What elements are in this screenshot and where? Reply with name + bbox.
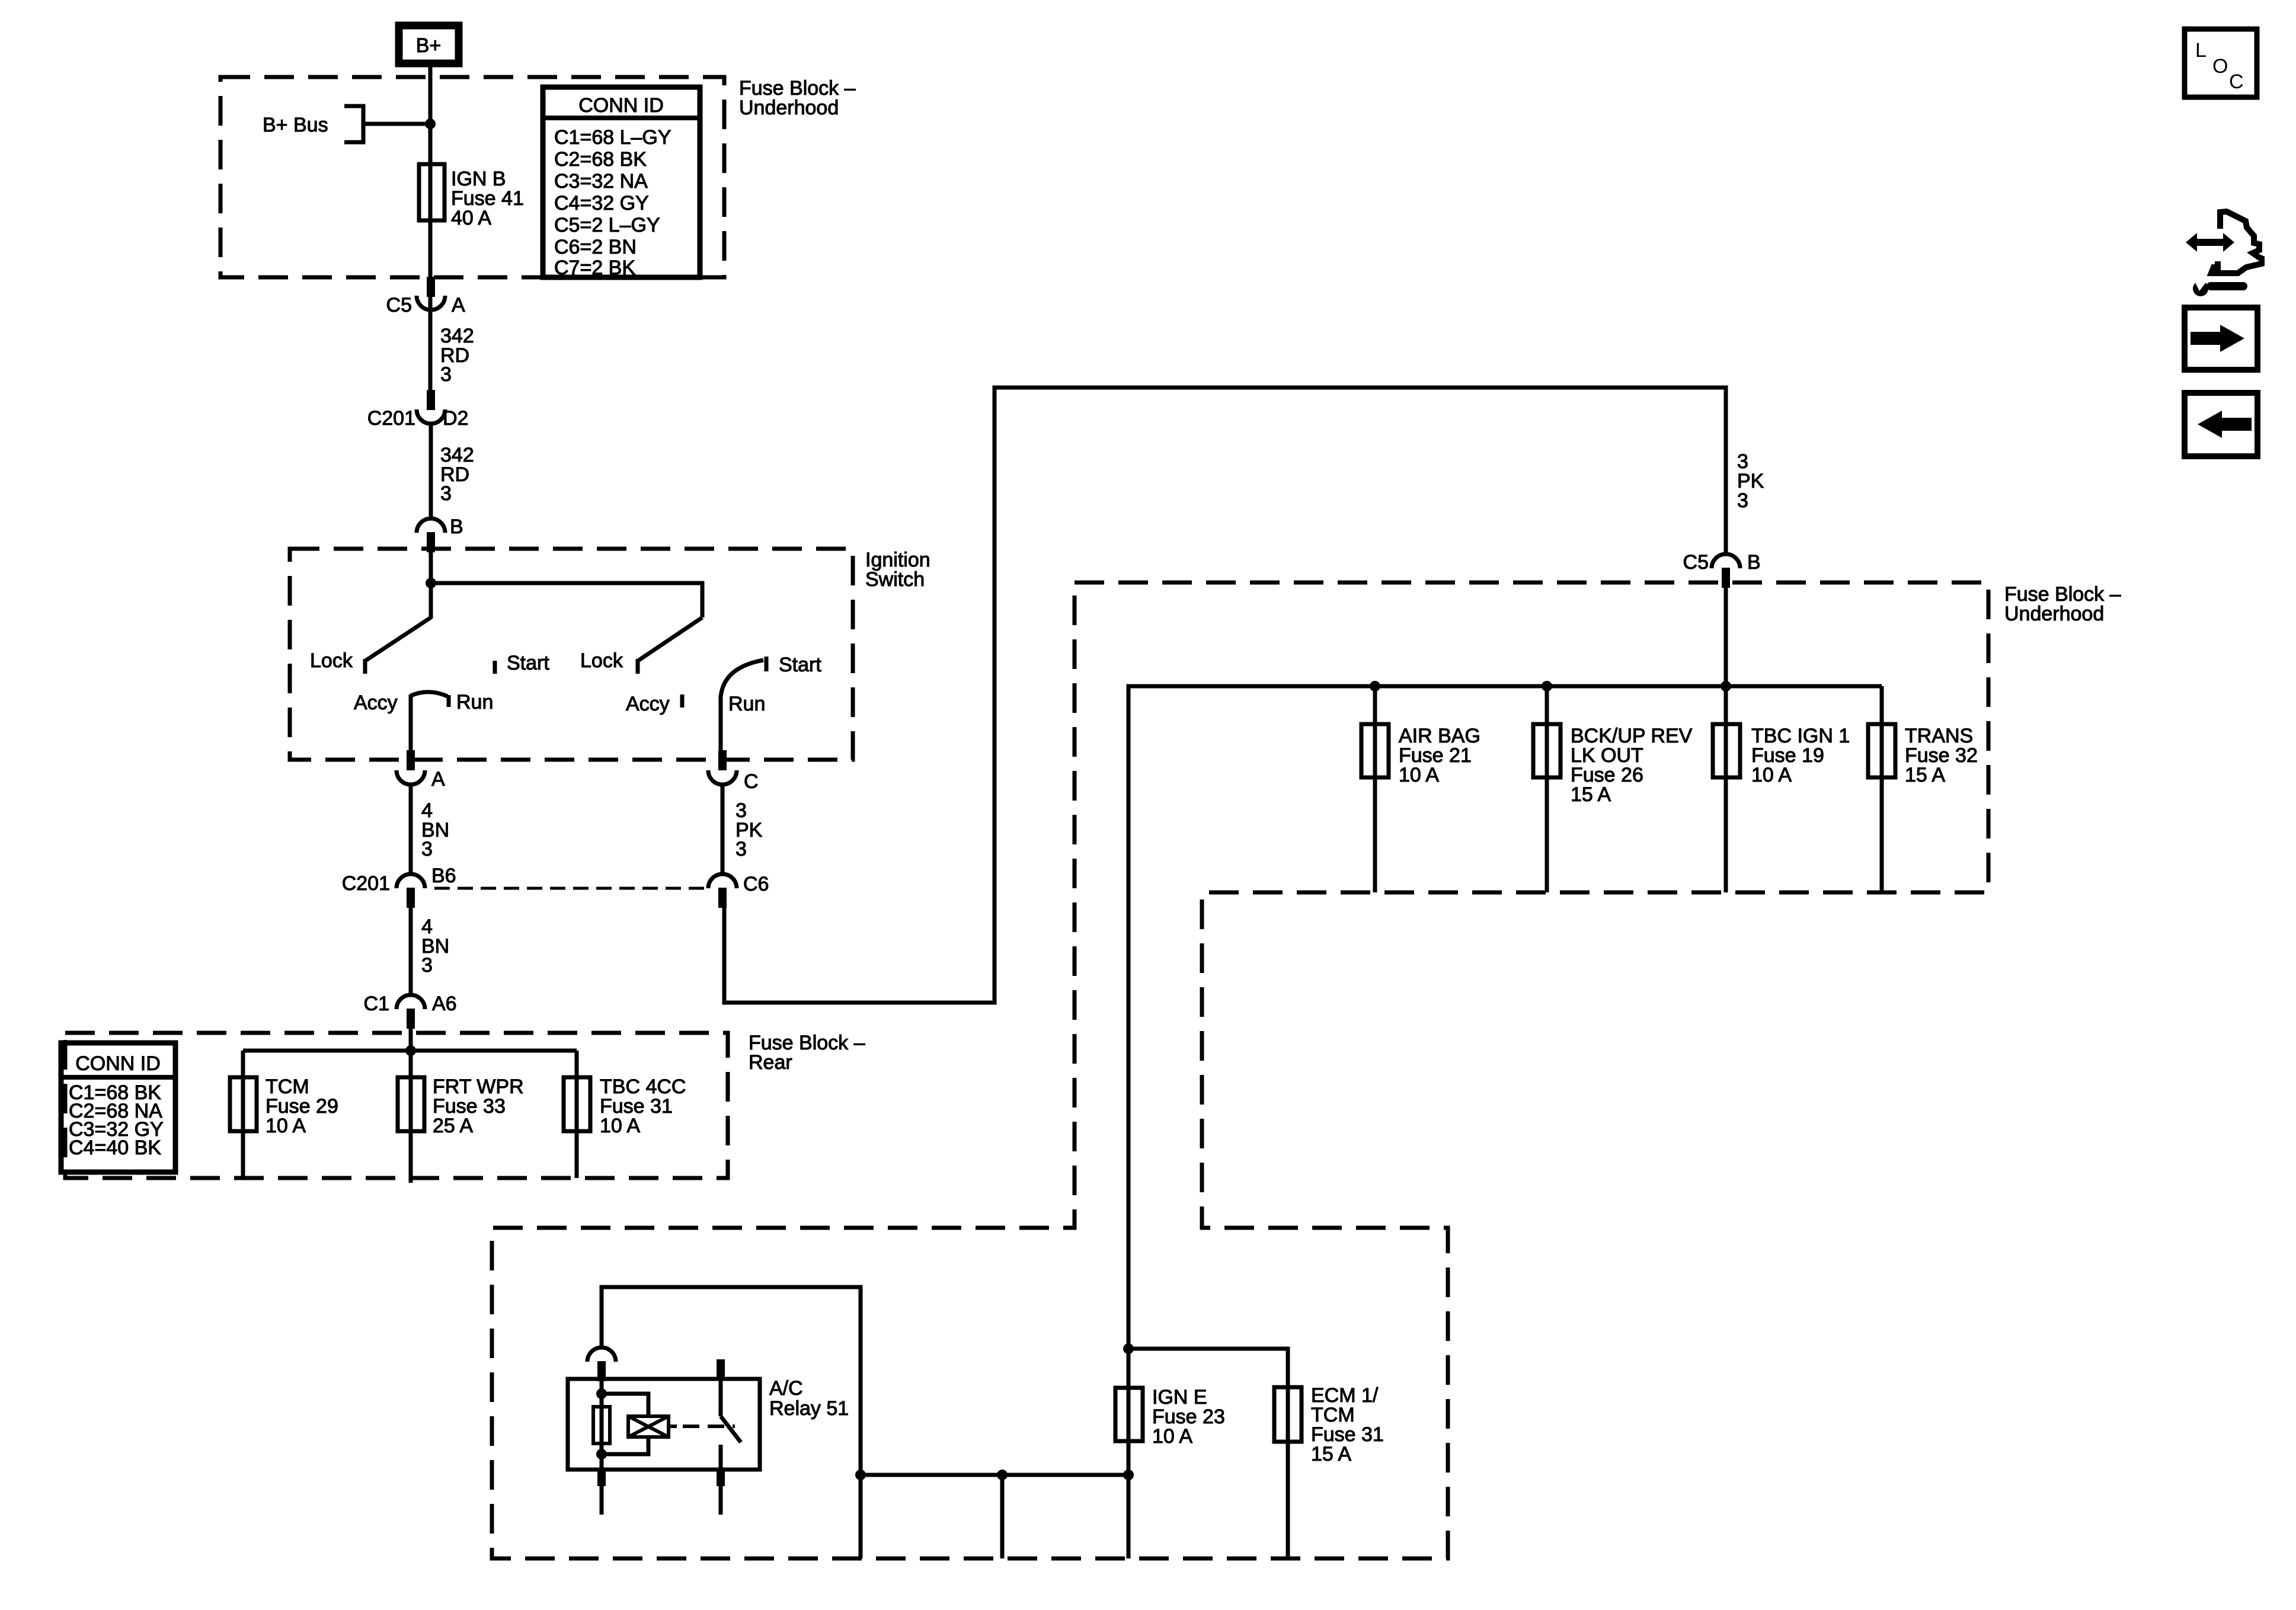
fuse F32 TRANS 15 A xyxy=(1868,724,1895,777)
svg-text:C5: C5 xyxy=(1683,551,1709,574)
svg-text:C6: C6 xyxy=(743,873,769,895)
junction at IGN E fuse bottom xyxy=(1123,1470,1134,1480)
wire TCM fuse drop xyxy=(241,1051,245,1178)
svg-text:A: A xyxy=(431,768,445,790)
contact Lock left xyxy=(363,659,367,674)
contact Start right xyxy=(765,657,769,671)
icon LOC reference box xyxy=(2185,29,2257,97)
relay K51 A/C Relay outline xyxy=(568,1379,760,1470)
power symbol B+ box xyxy=(399,25,459,63)
wire relay coil leg xyxy=(600,1381,604,1470)
svg-text:Switch: Switch xyxy=(865,568,925,591)
connector link C201 dotted line xyxy=(434,887,707,890)
junction at B+ bus tap xyxy=(425,119,436,129)
connector C201 pin D2 xyxy=(367,390,469,430)
junction at BCK/UP fuse xyxy=(1542,681,1552,692)
resistor relay coil shunt xyxy=(593,1407,610,1443)
actuator dashed link xyxy=(683,1425,735,1428)
svg-text:10 A: 10 A xyxy=(1152,1425,1192,1448)
wire lower bus drop xyxy=(1000,1475,1005,1558)
svg-text:C: C xyxy=(2229,71,2244,93)
pin relay switch output xyxy=(717,1468,725,1486)
wire underhood fuse bus and feed riser xyxy=(1128,686,1882,1558)
svg-text:CONN ID: CONN ID xyxy=(75,1052,161,1075)
connector C5 pin B xyxy=(1683,551,1761,588)
svg-text:C1=68 L–GY: C1=68 L–GY xyxy=(554,126,671,149)
svg-text:B: B xyxy=(1747,551,1761,574)
contact Accy right xyxy=(680,694,685,708)
wire lower bus xyxy=(861,1473,1128,1477)
connector C201 pin B6 xyxy=(342,865,456,908)
connector B (ignition switch) xyxy=(417,516,463,552)
fuse F41 IGN B 40 A xyxy=(419,164,445,220)
svg-text:3: 3 xyxy=(1737,489,1748,512)
svg-text:C201: C201 xyxy=(367,407,415,430)
svg-text:3: 3 xyxy=(736,838,747,860)
svg-text:A/C: A/C xyxy=(769,1377,803,1400)
wire connector C to C6 xyxy=(721,783,725,875)
svg-text:C4=40 BK: C4=40 BK xyxy=(69,1137,161,1159)
icon forward arrow box xyxy=(2185,308,2257,370)
svg-text:10 A: 10 A xyxy=(266,1115,306,1137)
wire to right switch pole xyxy=(431,583,702,617)
icon back arrow box xyxy=(2185,393,2257,456)
switch blade right pole xyxy=(639,617,702,660)
icon harness repair (double arrow, outline, wrench) xyxy=(2186,212,2262,296)
svg-text:Accy: Accy xyxy=(626,693,670,715)
svg-text:Rear: Rear xyxy=(749,1051,792,1074)
connector C xyxy=(708,750,759,793)
fuse F29 TCM 10 A xyxy=(230,1077,257,1131)
svg-text:D2: D2 xyxy=(443,407,468,430)
wire B+ Bus feed xyxy=(363,122,430,126)
junction at lower bus drop xyxy=(997,1470,1008,1480)
ignition switch dashed outline xyxy=(290,549,853,760)
svg-text:15 A: 15 A xyxy=(1311,1443,1351,1465)
wire right pole output xyxy=(719,696,723,753)
CONN ID table underhood xyxy=(543,87,700,279)
wire left pole output xyxy=(409,694,413,753)
svg-text:3: 3 xyxy=(421,954,433,977)
wire C201-D2 to connector B xyxy=(429,422,433,519)
svg-text:Accy: Accy xyxy=(354,692,398,714)
svg-text:B: B xyxy=(450,516,463,538)
fuse F21 AIR BAG 10 A xyxy=(1361,724,1389,777)
wire connector A to C201-B6 xyxy=(409,783,413,875)
connector at relay coil pin xyxy=(587,1347,616,1381)
connector C6 xyxy=(708,873,769,908)
fuse block underhood (right) and lower dashed outline xyxy=(492,582,1988,1558)
svg-text:3: 3 xyxy=(421,838,433,860)
wire rear fuse bus xyxy=(243,1049,577,1053)
svg-text:B+ Bus: B+ Bus xyxy=(263,114,328,136)
svg-text:25 A: 25 A xyxy=(433,1115,473,1137)
pin relay coil output xyxy=(597,1468,606,1486)
svg-text:O: O xyxy=(2212,55,2228,78)
wire relay switch upper contact xyxy=(719,1381,723,1416)
switch blade relay contact xyxy=(721,1416,741,1442)
switch blade left pole xyxy=(366,617,431,660)
svg-text:B6: B6 xyxy=(431,865,456,887)
svg-text:Underhood: Underhood xyxy=(739,97,839,119)
svg-text:40 A: 40 A xyxy=(451,207,491,229)
wire relay switch lower contact xyxy=(719,1445,723,1470)
connector C5 pin A xyxy=(386,277,465,316)
fuse F26 BCK/UP REV LK OUT 15 A xyxy=(1533,724,1560,777)
contact Lock right xyxy=(636,659,640,674)
svg-text:Lock: Lock xyxy=(580,649,623,672)
junction at coil top xyxy=(596,1388,607,1399)
fuse F33 FRT WPR 25 A xyxy=(398,1077,424,1131)
wire ECM fuse branch xyxy=(1128,1349,1288,1558)
node B+ Bus bracket xyxy=(344,106,363,142)
svg-text:C5=2 L–GY: C5=2 L–GY xyxy=(554,214,660,236)
wire from B+ down through fuse 41 xyxy=(428,63,433,392)
contact Start left xyxy=(493,661,497,674)
fuse F19 TBC IGN 1 10 A xyxy=(1713,724,1740,777)
svg-text:Start: Start xyxy=(779,654,821,676)
svg-text:3: 3 xyxy=(440,363,452,386)
svg-text:C1: C1 xyxy=(364,993,389,1015)
wire AIR BAG fuse drop xyxy=(1373,686,1377,892)
wire C201-B6 to C1-A6 xyxy=(409,907,413,996)
svg-text:15 A: 15 A xyxy=(1905,764,1945,786)
svg-text:10 A: 10 A xyxy=(1751,764,1792,786)
fuse F31 ECM 1/TCM 15 A xyxy=(1274,1387,1302,1442)
svg-text:Underhood: Underhood xyxy=(2004,603,2104,625)
svg-text:A: A xyxy=(452,294,465,316)
svg-text:10 A: 10 A xyxy=(600,1115,640,1137)
wire FRT WPR fuse drop xyxy=(409,1078,413,1183)
svg-text:10 A: 10 A xyxy=(1399,764,1439,786)
wire coil box stub xyxy=(669,1425,677,1428)
junction at coil bottom xyxy=(596,1449,607,1459)
coil relay winding box xyxy=(628,1416,669,1437)
connector C1 pin A6 xyxy=(364,993,457,1029)
svg-text:C3=32 NA: C3=32 NA xyxy=(554,170,648,193)
wire BCK/UP fuse drop xyxy=(1545,686,1549,892)
junction at relay loop xyxy=(855,1470,866,1480)
svg-text:CONN ID: CONN ID xyxy=(578,94,664,117)
svg-text:L: L xyxy=(2195,39,2207,62)
junction at rear bus xyxy=(405,1045,416,1056)
pin relay switch feed xyxy=(717,1359,725,1381)
svg-text:Relay 51: Relay 51 xyxy=(769,1397,849,1420)
wire C1-A6 into rear fuse block xyxy=(409,1028,413,1078)
junction at IGN E feed xyxy=(1123,1343,1134,1354)
svg-text:A6: A6 xyxy=(432,993,457,1015)
fuse F23 IGN E 10 A xyxy=(1115,1388,1143,1441)
wire relay coil feed loop xyxy=(602,1287,861,1558)
fuse F31 TBC 4CC 10 A xyxy=(564,1077,590,1131)
wire TBC IGN 1 fuse drop xyxy=(1724,686,1728,892)
contact Run left xyxy=(447,695,451,707)
wire relay coil parallel branch xyxy=(602,1394,648,1454)
svg-text:C: C xyxy=(744,770,759,793)
fuse block rear dashed outline xyxy=(65,1033,728,1178)
svg-text:C201: C201 xyxy=(342,872,390,895)
wire TRANS fuse drop xyxy=(1880,686,1884,892)
svg-text:Run: Run xyxy=(456,691,493,713)
switch wiper arc Accy-Run left xyxy=(411,692,447,696)
svg-text:3: 3 xyxy=(440,482,452,505)
svg-text:C7=2 BK: C7=2 BK xyxy=(554,257,635,279)
svg-text:C4=32 GY: C4=32 GY xyxy=(554,192,649,215)
junction at AIR BAG fuse xyxy=(1370,681,1380,692)
fuse block underhood (left) dashed outline xyxy=(220,77,724,277)
wire connector B into ignition switch xyxy=(429,551,433,619)
svg-text:Lock: Lock xyxy=(310,649,353,672)
svg-text:B+: B+ xyxy=(416,34,442,57)
junction at ignition switch feed xyxy=(426,578,436,588)
svg-text:C2=68 BK: C2=68 BK xyxy=(554,148,647,171)
wire C6 to underhood riser xyxy=(724,388,1726,1003)
CONN ID table rear xyxy=(61,1043,175,1172)
svg-text:Start: Start xyxy=(507,652,549,674)
svg-text:15 A: 15 A xyxy=(1571,783,1611,806)
connector A xyxy=(396,750,445,790)
wire TBC 4CC fuse drop xyxy=(575,1051,579,1178)
wire C5-B into underhood fuse block xyxy=(1724,587,1728,724)
junction at TBC IGN 1 fuse xyxy=(1721,681,1731,692)
svg-text:C5: C5 xyxy=(386,294,412,316)
switch wiper arc to Start right xyxy=(721,660,763,697)
svg-text:Run: Run xyxy=(728,693,765,715)
svg-text:C6=2 BN: C6=2 BN xyxy=(554,236,637,258)
